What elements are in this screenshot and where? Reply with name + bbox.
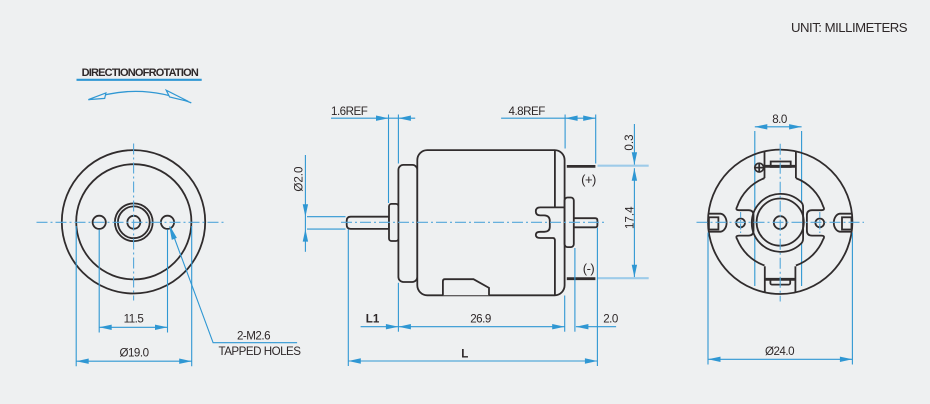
17.4 ext line bottom (terminal -) bbox=[598, 277, 649, 279]
svg-text:Ø2.0: Ø2.0 bbox=[293, 167, 306, 192]
small hole right crosshair bbox=[819, 212, 821, 234]
top notch wall left bbox=[764, 151, 766, 178]
svg-text:L1: L1 bbox=[366, 313, 380, 326]
bearing boss (left) bbox=[389, 204, 398, 241]
0.3/17.4 ext line top (terminal +) bbox=[598, 165, 649, 167]
bottom notch wall right bbox=[794, 266, 796, 292]
0.3 dim vertical line above bbox=[633, 124, 635, 165]
svg-text:11.5: 11.5 bbox=[124, 313, 144, 326]
dim line 26.9 bbox=[398, 326, 564, 328]
dim line 11.5 bbox=[99, 326, 167, 328]
tapped hole left bbox=[93, 216, 106, 229]
arrows Ø19 bbox=[76, 359, 89, 364]
svg-text:Ø19.0: Ø19.0 bbox=[119, 347, 148, 360]
bottom ext line end boss right bbox=[574, 248, 576, 332]
dim line 8.0 bbox=[755, 126, 802, 128]
arrows 4.8REF (inside) bbox=[565, 116, 578, 121]
mounting flange bbox=[398, 165, 417, 282]
underline of rotation label bbox=[77, 79, 202, 81]
svg-text:17.4: 17.4 bbox=[624, 206, 637, 229]
top notch wall right bbox=[795, 151, 797, 178]
hub inner circle bbox=[757, 199, 804, 246]
hub outer (flattened right) bbox=[752, 194, 803, 252]
arrow L1 bbox=[386, 324, 399, 329]
ext line 1.6/L1/26.9 (flange left face) top bbox=[397, 115, 399, 164]
Ø2.0 dim vertical line bbox=[304, 155, 306, 252]
dim line L bbox=[348, 360, 597, 362]
bottom brush cap rect bbox=[770, 280, 790, 285]
ext line 4.8REF right (terminal end) bbox=[595, 115, 597, 164]
left ear terminal rect bbox=[709, 217, 719, 229]
front vertical centerline bbox=[133, 144, 135, 301]
arrows 1.6REF (outside) bbox=[376, 116, 389, 121]
17.4 dim vertical line bbox=[633, 168, 635, 277]
bottom brush bar (dark) bbox=[765, 278, 796, 281]
tapped hole right bbox=[161, 216, 174, 229]
ext line 4.8REF left (body right top) bbox=[564, 115, 566, 149]
Ø24 ext line left bbox=[707, 233, 709, 365]
bottom ext line body right bbox=[564, 296, 566, 332]
svg-text:(-): (-) bbox=[583, 261, 595, 276]
rear bushing stub (shaft right) bbox=[570, 218, 597, 227]
svg-text:2.0: 2.0 bbox=[603, 313, 618, 326]
end bell center boss bbox=[565, 198, 574, 248]
arrows L (inside) bbox=[348, 358, 361, 363]
dim line 4.8REF bbox=[501, 117, 596, 119]
rotation arrowhead right bbox=[166, 90, 188, 101]
bottom ext line rear shaft tip bbox=[596, 228, 598, 366]
8.0 extension line right bbox=[801, 131, 803, 286]
extension line hole left bbox=[98, 230, 100, 333]
can/endbell seam line lower bbox=[554, 239, 556, 294]
dim line Ø19 bbox=[76, 360, 192, 362]
leader line tapped holes bbox=[171, 228, 298, 343]
top brush bar (dark) bbox=[763, 165, 796, 168]
dim line Ø24 bbox=[708, 358, 852, 360]
front inner circle (Ø19 boss circle) bbox=[76, 164, 191, 279]
dim line 1.6REF bbox=[331, 117, 415, 119]
bottom ext line shaft tip bbox=[347, 230, 349, 367]
screw head circle bbox=[755, 163, 764, 172]
arrows Ø2.0 (outside) bbox=[303, 204, 308, 217]
rotation arrowhead left bbox=[88, 93, 106, 100]
right ear terminal rect bbox=[842, 217, 852, 229]
terminal (-) tab bbox=[567, 277, 596, 280]
ring opening boundary left (arcs + channel to hub) bbox=[736, 178, 764, 265]
svg-text:(+): (+) bbox=[581, 172, 596, 187]
left ear slot bbox=[708, 214, 727, 232]
svg-text:TAPPED HOLES: TAPPED HOLES bbox=[218, 345, 301, 358]
rear small hole left bbox=[736, 219, 745, 228]
arrow 2.0 bbox=[576, 324, 589, 329]
front horizontal centerline bbox=[37, 221, 224, 223]
rear vertical centerline bbox=[779, 144, 781, 302]
rear horizontal centerline bbox=[697, 221, 865, 223]
shaft (left) bbox=[347, 217, 389, 229]
extension line hole right bbox=[167, 230, 169, 333]
svg-text:0.3: 0.3 bbox=[623, 134, 636, 150]
dim line 2.0 bbox=[576, 326, 616, 328]
svg-text:26.9: 26.9 bbox=[470, 313, 491, 326]
Ø2.0 ext line top bbox=[307, 216, 346, 218]
screw head cross bbox=[755, 164, 763, 172]
svg-text:L: L bbox=[461, 348, 468, 361]
can/endbell seam line upper bbox=[554, 151, 556, 208]
Ø24 ext line right bbox=[851, 233, 853, 365]
arrows 0.3 / 17.4 bbox=[632, 152, 637, 165]
svg-text:2-M2.6: 2-M2.6 bbox=[237, 329, 270, 342]
shaft hole bbox=[127, 216, 140, 229]
vent notch bottom-left bbox=[443, 279, 489, 295]
extension line Ø19 right bbox=[191, 226, 193, 366]
rear outer circle bbox=[708, 150, 852, 294]
bottom notch wall left bbox=[764, 266, 766, 292]
right ear slot bbox=[834, 214, 853, 232]
Ø2.0 ext line bottom bbox=[307, 228, 346, 230]
svg-text:4.8REF: 4.8REF bbox=[509, 105, 546, 118]
center boss inner circle bbox=[118, 206, 150, 238]
8.0 extension line left bbox=[754, 131, 756, 286]
ext line 1.6REF left (boss left face) bbox=[388, 115, 390, 204]
rear small hole right bbox=[815, 219, 824, 228]
terminal (+) tab bbox=[567, 165, 596, 168]
svg-text:1.6REF: 1.6REF bbox=[331, 105, 368, 118]
shaft centerline (middle view) bbox=[341, 221, 606, 223]
front outer circle (case) bbox=[62, 150, 205, 293]
dim line L1 bbox=[361, 326, 399, 328]
small hole left crosshair bbox=[740, 212, 742, 234]
rear center hole bbox=[774, 216, 787, 229]
top brush cap rect bbox=[771, 162, 791, 167]
endbell clip hooks and neck bbox=[536, 207, 565, 239]
bottom ext line flange face bbox=[397, 283, 399, 332]
svg-text:DIRECTIONOFROTATION: DIRECTIONOFROTATION bbox=[82, 67, 199, 79]
leader arrowhead bbox=[170, 226, 177, 239]
arrows 11.5 bbox=[99, 325, 112, 330]
svg-text:UNIT: MILLIMETERS: UNIT: MILLIMETERS bbox=[791, 20, 908, 35]
center boss outer circle bbox=[115, 203, 153, 241]
arrows 26.9 (inside) bbox=[398, 324, 411, 329]
rotation arc bbox=[88, 91, 191, 103]
svg-text:Ø24.0: Ø24.0 bbox=[765, 345, 794, 358]
motor body (can) bbox=[417, 150, 564, 295]
extension line Ø19 left bbox=[75, 226, 77, 366]
svg-text:8.0: 8.0 bbox=[772, 113, 787, 126]
ring opening boundary right (arcs + channel to hub) bbox=[796, 178, 824, 265]
